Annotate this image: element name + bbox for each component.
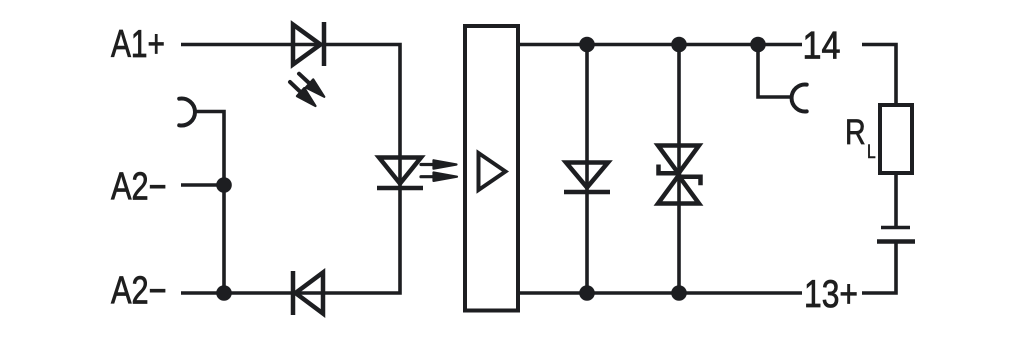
svg-text:A2−: A2−	[111, 166, 167, 209]
svg-text:R: R	[845, 112, 866, 152]
svg-text:A2−: A2−	[111, 270, 167, 313]
svg-text:14: 14	[803, 25, 841, 68]
svg-text:13+: 13+	[804, 273, 858, 316]
svg-text:A1+: A1+	[111, 23, 165, 66]
svg-text:L: L	[867, 142, 876, 163]
